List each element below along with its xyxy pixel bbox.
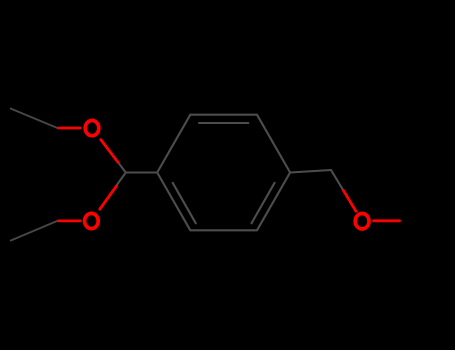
bond O3-C13 (red, horizontal methyl): [374, 219, 400, 222]
double bond inner line C4=C5 (lower-right): [252, 183, 275, 224]
bond C1-C7 (ring to acetal CH): [126, 171, 157, 173]
bond C12-O3 red half (near O3): [344, 191, 357, 212]
atom O1 (upper-left oxygen): [85, 121, 99, 136]
bond C4-C12 (ring to benzylic CH2): [290, 170, 331, 173]
bond C7-O1 red half (near O1): [101, 140, 118, 163]
bond O1-C8 (red, horizontal to ethyl CH2): [58, 127, 80, 130]
atom O2 (lower-left oxygen): [85, 213, 99, 228]
benzene ring C1-C6: [157, 115, 290, 231]
double bond inner line C2=C3 (top): [199, 122, 248, 124]
double bond inner line C6=C1 (lower-left): [173, 183, 196, 224]
bond C7-O1 gray half (near C7): [118, 162, 126, 173]
bond O2-C10 (red, horizontal to ethyl CH2): [58, 219, 80, 222]
bond C8-C9 (gray ethyl tail, up-left): [11, 109, 58, 128]
atom O3 (right oxygen): [355, 214, 369, 229]
bond C7-O2 red half (near O2): [100, 186, 117, 209]
bond C7-O2 gray half (near C7): [116, 173, 126, 186]
bond C10-C11 (gray ethyl tail, down-left): [11, 221, 58, 241]
bond C12-O3 gray half (near C12): [331, 170, 344, 191]
